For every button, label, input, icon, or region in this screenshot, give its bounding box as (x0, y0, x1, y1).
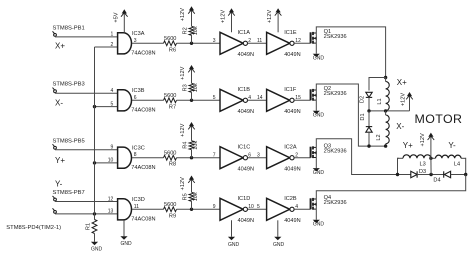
junction Y center tap (429, 157, 432, 160)
resistor R1 (85, 220, 97, 234)
svg-text:5600: 5600 (164, 151, 176, 157)
wire IC3A output to R6 (132, 42, 164, 44)
inductor L2 (X- winding) (376, 111, 389, 146)
wire D4 to Y- (451, 174, 466, 176)
svg-text:IC3D: IC3D (132, 197, 145, 203)
wire Q4 drain rail to Y- (316, 175, 465, 200)
wire X+ to D2 (369, 78, 386, 91)
wire R6 to IC1A input (177, 42, 221, 44)
wire IC2A to Q3 gate (294, 157, 311, 159)
svg-text:9: 9 (213, 204, 216, 210)
+12V supply row 2 (180, 65, 195, 83)
+12V supply at Y center tap (420, 133, 434, 159)
junction D2/center tap (367, 109, 370, 112)
junction Y-/diode row (464, 173, 467, 176)
svg-text:D1: D1 (360, 113, 366, 120)
svg-text:1: 1 (111, 32, 114, 38)
wire STM8S-PB5 to IC3C pin 9 (55, 149, 118, 151)
transistor Q1 2SK2936 (311, 29, 347, 44)
svg-text:4049N: 4049N (284, 109, 300, 115)
+5V supply at IC3A (114, 9, 128, 32)
svg-text:9: 9 (111, 145, 114, 151)
ground at Q2 source (313, 100, 325, 118)
+12V supply row 1 (180, 6, 195, 26)
svg-text:+12V: +12V (400, 93, 406, 106)
svg-text:L3: L3 (419, 161, 425, 167)
svg-text:STM8S-PB5: STM8S-PB5 (53, 138, 85, 144)
svg-text:STM8S-PD4(TIM2-1): STM8S-PD4(TIM2-1) (6, 225, 61, 231)
svg-text:2SK2936: 2SK2936 (324, 34, 347, 40)
svg-text:10k: 10k (193, 83, 199, 92)
svg-text:IC1C: IC1C (238, 144, 251, 150)
svg-text:Y+: Y+ (403, 141, 413, 150)
wire IC1F to Q2 gate (294, 99, 311, 101)
wire R1 to ground (94, 234, 96, 242)
wire Q1 drain rail to X+ (316, 27, 385, 78)
svg-text:2SK2936: 2SK2936 (324, 200, 347, 206)
resistor R5 10k pull-up (182, 192, 199, 209)
svg-text:+12V: +12V (180, 8, 186, 21)
resistor R6 5600 (164, 36, 177, 53)
inductor L4 (Y- winding) (436, 155, 466, 167)
svg-text:5600: 5600 (164, 202, 176, 208)
svg-text:2SK2936: 2SK2936 (324, 91, 347, 97)
inverter IC1D 4049N (220, 196, 254, 224)
wire D1 to X- row (368, 132, 370, 146)
svg-text:10k: 10k (193, 26, 199, 35)
inverter IC1A 4049N (220, 30, 254, 58)
svg-text:L2: L2 (376, 134, 382, 140)
svg-text:4: 4 (111, 88, 114, 94)
svg-text:X-: X- (55, 99, 63, 108)
svg-text:X-: X- (396, 122, 404, 131)
transistor Q4 2SK2936 (311, 195, 347, 210)
port STM8S-PD4(TIM2-1) (6, 208, 61, 231)
and-gate IC3B 74AC08N (118, 88, 156, 114)
svg-text:STM8S-PB3: STM8S-PB3 (53, 82, 85, 88)
and-gate IC3C 74AC08N (118, 145, 156, 171)
svg-text:4049N: 4049N (284, 166, 300, 172)
svg-text:IC1F: IC1F (284, 87, 297, 93)
wire R8 to IC1C input (177, 157, 221, 159)
svg-text:+12V: +12V (180, 177, 186, 190)
wire STM8S-PB3 to IC3B pin 4 (55, 92, 118, 94)
svg-text:5600: 5600 (164, 36, 176, 42)
ground at IC2B (273, 220, 285, 248)
svg-text:D2: D2 (360, 96, 366, 103)
port STM8S-PB7 (53, 190, 85, 202)
resistor R8 5600 (164, 151, 177, 168)
wire PWM bus to IC3B pin 5 (95, 106, 118, 108)
svg-text:IC2B: IC2B (284, 196, 297, 202)
svg-text:R3: R3 (182, 84, 188, 91)
svg-text:X+: X+ (397, 78, 407, 87)
svg-text:GND: GND (313, 56, 325, 62)
svg-text:10k: 10k (193, 192, 199, 201)
svg-text:R2: R2 (182, 27, 188, 34)
svg-text:X+: X+ (55, 42, 65, 51)
junction L2/X- row (384, 144, 387, 147)
inductor L1 (X+ winding) (377, 78, 389, 111)
svg-text:R9: R9 (169, 213, 176, 219)
ground below R1 (91, 242, 103, 253)
svg-text:7: 7 (213, 153, 216, 159)
wire R9 to IC1D input (177, 208, 221, 210)
ground at Q4 source (313, 209, 325, 227)
svg-text:L1: L1 (377, 98, 383, 104)
svg-text:GND: GND (273, 242, 285, 248)
svg-text:GND: GND (313, 113, 325, 119)
wire Q3 drain rail to Y+ (316, 139, 411, 175)
svg-text:R5: R5 (182, 193, 188, 200)
wire center tap to diode row (430, 158, 432, 174)
transistor Q3 2SK2936 (311, 144, 347, 159)
resistor R9 5600 (164, 202, 177, 219)
wire STM8S-PB1 to IC3A pin 1 (55, 36, 118, 38)
junction PWM bus row 3 (93, 161, 96, 164)
svg-text:+12V: +12V (180, 66, 186, 79)
svg-text:+5V: +5V (114, 12, 120, 22)
svg-text:4049N: 4049N (238, 52, 254, 58)
svg-text:4049N: 4049N (238, 109, 254, 115)
node row 4 junction (190, 208, 193, 211)
svg-text:Y+: Y+ (55, 156, 65, 165)
resistor R2 10k pull-up (182, 26, 199, 43)
svg-text:IC1A: IC1A (238, 30, 251, 36)
inverter IC1C 4049N (220, 144, 254, 172)
port STM8S-PB1 (53, 25, 85, 37)
svg-text:IC3A: IC3A (132, 31, 145, 37)
svg-text:STM8S-PB1: STM8S-PB1 (53, 25, 85, 31)
svg-text:R4: R4 (182, 142, 188, 149)
svg-text:R6: R6 (169, 47, 176, 53)
inverter IC1E 4049N (267, 30, 301, 58)
svg-text:74AC08N: 74AC08N (131, 217, 155, 223)
ground at Q3 source (313, 158, 325, 176)
svg-text:GND: GND (91, 247, 103, 253)
svg-text:IC3C: IC3C (132, 145, 145, 151)
wire D2 to center tap (368, 97, 370, 111)
svg-text:3: 3 (213, 38, 216, 44)
port STM8S-PB3 (53, 82, 85, 94)
svg-text:+12V: +12V (420, 133, 426, 146)
ground at Q1 source (313, 43, 325, 61)
+12V supply at IC1E (267, 8, 281, 32)
wire IC3B output to R7 (132, 99, 164, 101)
wire IC1B to IC1F (248, 99, 267, 101)
diode D4 (433, 171, 450, 183)
svg-text:R7: R7 (169, 104, 176, 110)
wire IC1D to IC2B (248, 208, 267, 210)
wire PWM bus to IC3A pin 2 (95, 46, 118, 48)
resistor R7 5600 (164, 93, 177, 110)
wire PWM bus vertical (TIM2-1 net) (94, 47, 96, 220)
junction PWM bus row 2 (93, 105, 96, 108)
wire Y+ end down (398, 158, 399, 174)
transistor Q2 2SK2936 (311, 86, 347, 101)
diode D1 (360, 111, 372, 132)
node row 2 junction (190, 99, 193, 102)
svg-text:GND: GND (313, 222, 325, 228)
svg-text:10k: 10k (193, 140, 199, 149)
+12V supply row 4 (180, 176, 195, 193)
junction diode row center (429, 173, 432, 176)
wire STM8S-PD4 to IC3D pin 13 (55, 213, 118, 215)
svg-text:4049N: 4049N (284, 218, 300, 224)
svg-text:R8: R8 (169, 162, 176, 168)
junction Y+/diode row (396, 173, 399, 176)
diode D3 (411, 169, 426, 178)
svg-text:IC1B: IC1B (238, 87, 251, 93)
wire IC2B to Q4 gate (294, 208, 311, 210)
wire IC1C to IC2A (248, 157, 267, 159)
svg-text:74AC08N: 74AC08N (131, 165, 155, 171)
wire IC3D output to R9 (132, 208, 164, 210)
svg-text:IC1D: IC1D (238, 196, 251, 202)
wire PWM bus to IC3C pin 10 (95, 162, 118, 164)
svg-text:GND: GND (228, 242, 240, 248)
svg-text:74AC08N: 74AC08N (131, 108, 155, 114)
svg-text:4049N: 4049N (238, 166, 254, 172)
svg-text:2SK2936: 2SK2936 (324, 148, 347, 154)
inverter IC2A 4049N (267, 144, 301, 172)
svg-text:IC2A: IC2A (284, 144, 297, 150)
svg-text:+12V: +12V (267, 10, 273, 23)
node row 3 junction (190, 156, 193, 159)
wire IC1A to IC1E (248, 42, 267, 44)
svg-text:5600: 5600 (164, 93, 176, 99)
node row 1 junction (190, 42, 193, 45)
svg-text:Y-: Y- (448, 141, 456, 150)
svg-text:IC1E: IC1E (284, 30, 297, 36)
wire Q2 drain rail to X- (316, 84, 385, 146)
port STM8S-PB5 (53, 138, 85, 150)
diode D2 (360, 92, 373, 103)
svg-text:+12V: +12V (180, 123, 186, 136)
svg-text:STM8S-PB7: STM8S-PB7 (53, 190, 85, 196)
+12V supply row 3 (180, 122, 195, 141)
svg-text:74AC08N: 74AC08N (131, 51, 155, 57)
wire IC3C output to R8 (132, 157, 164, 159)
inverter IC1F 4049N (267, 87, 301, 115)
wire STM8S-PB7 to IC3D pin 12 (55, 201, 118, 203)
svg-text:IC3B: IC3B (132, 88, 145, 94)
wire Y- end down (464, 158, 466, 174)
svg-text:4049N: 4049N (238, 218, 254, 224)
svg-text:MOTOR: MOTOR (415, 112, 463, 126)
ground at IC1D (228, 220, 240, 248)
junction D1/X- row (367, 144, 370, 147)
svg-text:GND: GND (120, 241, 132, 247)
svg-text:5: 5 (213, 95, 216, 101)
svg-text:GND: GND (313, 170, 325, 176)
svg-text:R1: R1 (85, 223, 91, 230)
node X+ junction (384, 76, 387, 79)
wire D3 to center (417, 174, 444, 176)
+12V supply at X center tap (400, 92, 413, 111)
resistor R4 10k pull-up (182, 140, 199, 157)
ground at IC3D (120, 220, 132, 247)
svg-text:12: 12 (108, 196, 114, 202)
svg-text:L4: L4 (454, 161, 460, 167)
inductor L3 (Y+ winding) (398, 155, 431, 167)
svg-text:4049N: 4049N (284, 52, 300, 58)
svg-text:+12V: +12V (221, 10, 227, 23)
wire R7 to IC1B input (177, 99, 221, 101)
+12V supply at IC1A (221, 8, 235, 32)
inverter IC1B 4049N (220, 87, 254, 115)
wire L3 to L4 (431, 157, 436, 159)
and-gate IC3D 74AC08N (118, 197, 156, 223)
wire IC1E to Q1 gate (294, 42, 311, 44)
svg-text:D4: D4 (433, 178, 440, 184)
svg-text:Y-: Y- (55, 179, 63, 188)
wire X center tap row (369, 110, 410, 112)
inverter IC2B 4049N (267, 196, 301, 224)
junction L1/L2 center tap (384, 109, 387, 112)
and-gate IC3A 74AC08N (118, 31, 156, 57)
resistor R3 10k pull-up (182, 83, 199, 100)
junction PWM bus / pin 13 (93, 212, 96, 215)
